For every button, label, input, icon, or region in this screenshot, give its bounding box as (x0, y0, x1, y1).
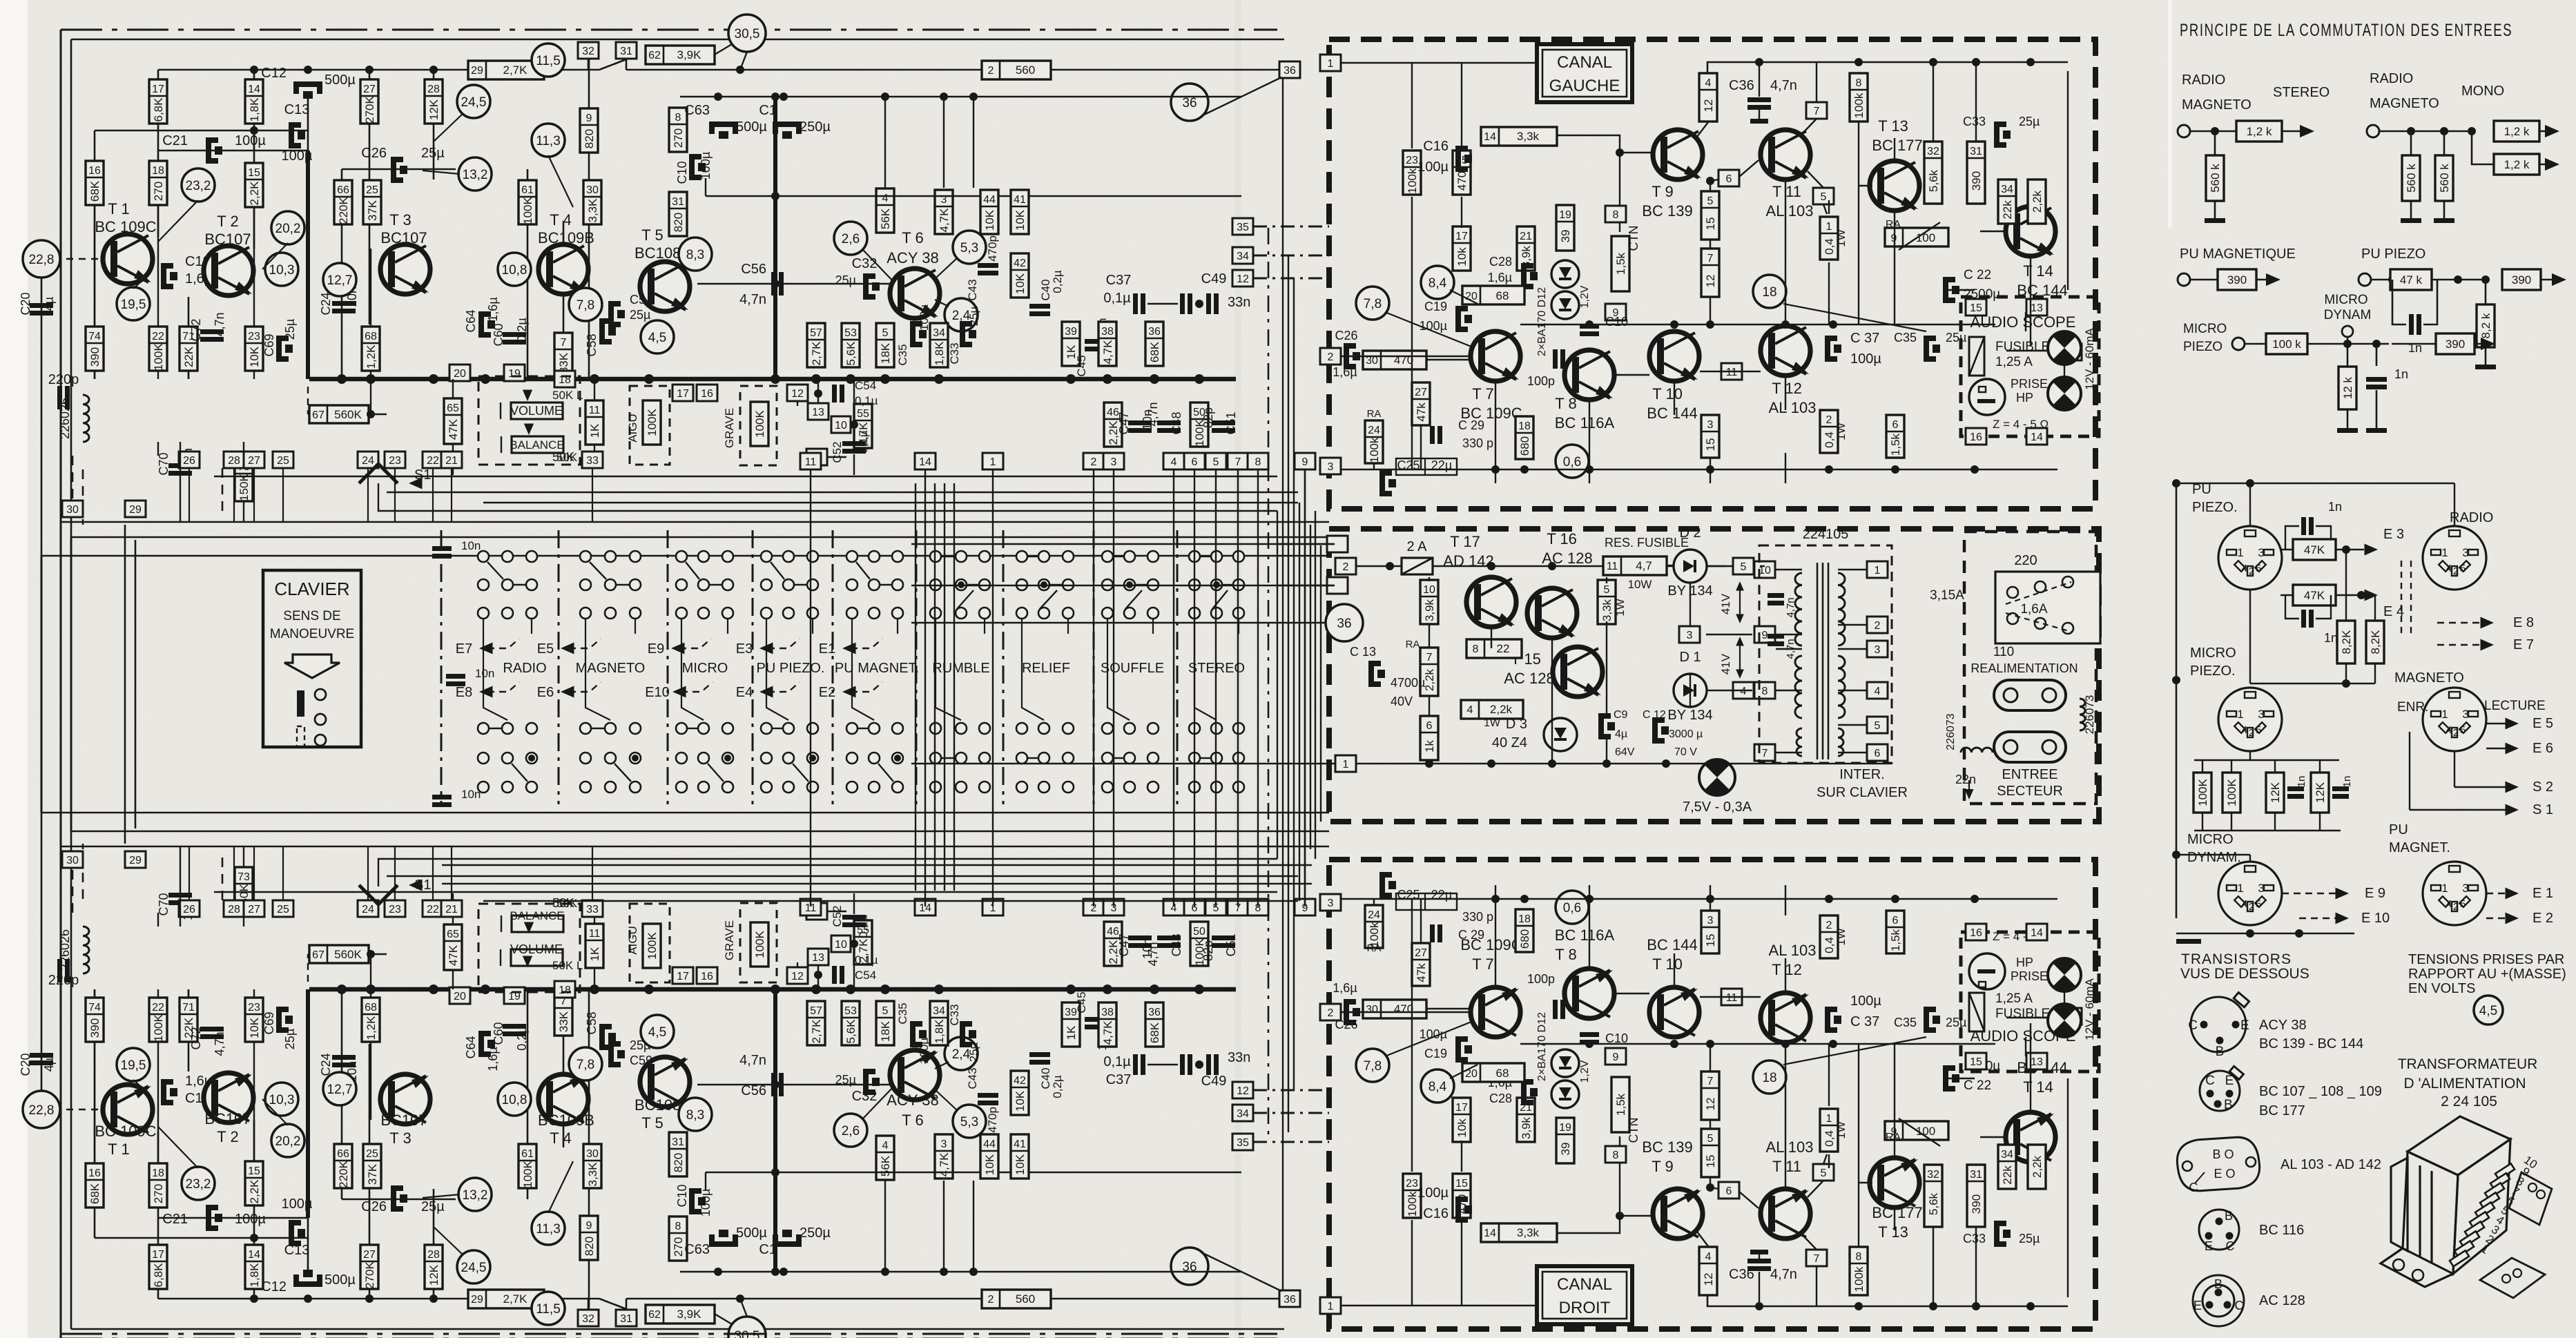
svg-text:28: 28 (228, 904, 240, 915)
svg-text:C9: C9 (1614, 709, 1628, 721)
svg-text:T 14: T 14 (2023, 262, 2053, 280)
svg-text:5,6K: 5,6K (844, 1019, 858, 1044)
svg-text:13: 13 (812, 407, 824, 418)
svg-text:5: 5 (1821, 1167, 1827, 1179)
svg-text:5: 5 (1821, 191, 1827, 203)
svg-text:C: C (2189, 1181, 2198, 1194)
svg-text:1,5k: 1,5k (1889, 433, 1902, 456)
svg-text:2: 2 (2249, 901, 2254, 913)
svg-text:100K: 100K (2196, 778, 2209, 806)
svg-text:C26: C26 (361, 1199, 387, 1214)
svg-text:19,5: 19,5 (121, 1058, 146, 1073)
svg-text:T 13: T 13 (1878, 117, 1908, 135)
svg-text:470: 470 (1394, 1002, 1413, 1016)
svg-text:110: 110 (1993, 645, 2014, 659)
svg-text:2,2k: 2,2k (2031, 1155, 2044, 1178)
svg-text:C19: C19 (1424, 1047, 1447, 1060)
svg-text:10K: 10K (1014, 273, 1027, 294)
svg-text:5: 5 (882, 327, 889, 339)
svg-text:C63: C63 (684, 103, 710, 118)
svg-text:2: 2 (1826, 920, 1832, 931)
svg-text:100µ: 100µ (918, 304, 931, 331)
svg-text:CLAVIER: CLAVIER (274, 579, 349, 599)
svg-text:T 7: T 7 (1472, 956, 1493, 973)
svg-text:30: 30 (586, 1148, 599, 1160)
svg-text:14: 14 (1484, 1228, 1496, 1239)
svg-text:0,2µ: 0,2µ (515, 1026, 529, 1050)
svg-text:0,1µ: 0,1µ (1103, 291, 1131, 306)
svg-text:4: 4 (2242, 724, 2247, 736)
svg-text:8: 8 (1856, 77, 1862, 89)
svg-text:12,7: 12,7 (327, 1083, 353, 1097)
svg-text:30: 30 (586, 184, 599, 196)
svg-text:270: 270 (672, 128, 685, 148)
svg-text:T 12: T 12 (1772, 380, 1802, 397)
svg-text:S 1: S 1 (2533, 802, 2553, 817)
svg-text:33K: 33K (557, 1011, 570, 1032)
svg-text:T 8: T 8 (1555, 395, 1576, 412)
svg-text:C21: C21 (162, 1212, 188, 1227)
svg-text:100µ: 100µ (235, 133, 266, 148)
svg-text:C43: C43 (966, 279, 979, 300)
svg-text:1n: 1n (2296, 776, 2307, 788)
svg-text:3,9k: 3,9k (1423, 599, 1436, 621)
svg-text:C51: C51 (1224, 933, 1238, 956)
svg-text:10K: 10K (983, 209, 996, 231)
svg-text:C54: C54 (855, 379, 876, 392)
svg-text:E8: E8 (456, 685, 472, 700)
svg-text:36: 36 (1284, 65, 1296, 77)
svg-text:18: 18 (152, 1167, 164, 1179)
svg-text:4: 4 (2446, 563, 2452, 574)
svg-text:53: 53 (844, 327, 857, 339)
svg-text:SUR CLAVIER: SUR CLAVIER (1817, 785, 1908, 800)
svg-text:E1: E1 (819, 641, 835, 657)
svg-text:31: 31 (1970, 146, 1982, 157)
svg-text:12: 12 (1704, 275, 1717, 288)
svg-text:82p: 82p (1201, 407, 1215, 428)
svg-text:19: 19 (1559, 1122, 1571, 1134)
svg-text:12K: 12K (2314, 782, 2327, 803)
svg-text:39: 39 (1559, 1143, 1572, 1156)
svg-text:E 5: E 5 (2533, 716, 2553, 731)
svg-text:8: 8 (1255, 456, 1261, 468)
svg-text:4,7n: 4,7n (1146, 402, 1160, 426)
svg-text:150K: 150K (238, 473, 251, 501)
svg-text:T 1: T 1 (108, 1141, 129, 1158)
svg-text:4: 4 (1875, 686, 1881, 697)
svg-text:25: 25 (366, 1148, 378, 1160)
svg-text:12K: 12K (427, 99, 440, 120)
svg-text:4: 4 (2446, 724, 2452, 736)
svg-text:560K: 560K (334, 948, 362, 961)
svg-text:1,2K: 1,2K (365, 1016, 378, 1040)
svg-text:0,1µ: 0,1µ (1103, 1054, 1131, 1069)
svg-text:50K L: 50K L (552, 959, 583, 972)
svg-text:E6: E6 (537, 685, 554, 700)
svg-text:2,7K: 2,7K (810, 341, 823, 366)
svg-text:9: 9 (1302, 456, 1308, 468)
svg-text:C36: C36 (1729, 78, 1754, 93)
svg-text:1: 1 (2441, 882, 2448, 895)
svg-text:C58: C58 (585, 333, 599, 356)
svg-text:16: 16 (1970, 927, 1982, 939)
svg-text:C16: C16 (1423, 1206, 1449, 1221)
svg-text:10,8: 10,8 (502, 1093, 527, 1107)
svg-text:BC 116A: BC 116A (1555, 414, 1615, 432)
svg-text:T 1: T 1 (108, 200, 129, 217)
svg-text:GRAVE: GRAVE (723, 920, 736, 960)
svg-text:PRINCIPE DE LA COMMUTATION: PRINCIPE DE LA COMMUTATION DES ENTREES (2180, 21, 2512, 40)
svg-text:29: 29 (471, 65, 483, 77)
svg-text:10K: 10K (983, 1154, 996, 1175)
svg-text:2: 2 (988, 65, 994, 77)
svg-text:18: 18 (1762, 1071, 1776, 1085)
svg-text:15: 15 (1704, 1155, 1717, 1168)
svg-text:390: 390 (88, 1018, 101, 1038)
svg-text:2: 2 (2453, 727, 2459, 739)
svg-text:70 V: 70 V (1674, 746, 1697, 758)
svg-text:C26: C26 (1335, 329, 1357, 342)
svg-text:5,3: 5,3 (960, 1115, 978, 1129)
svg-text:1,25 A: 1,25 A (1995, 355, 2033, 369)
svg-text:1: 1 (1826, 1113, 1832, 1125)
svg-text:65: 65 (447, 929, 459, 940)
svg-text:12,7: 12,7 (327, 273, 353, 288)
svg-text:C10: C10 (675, 161, 689, 184)
svg-text:C 29: C 29 (1458, 928, 1484, 942)
svg-text:11: 11 (805, 456, 817, 468)
svg-text:220K: 220K (337, 196, 350, 224)
svg-text:67: 67 (312, 409, 325, 421)
svg-text:5: 5 (2460, 563, 2466, 574)
svg-text:AL 103: AL 103 (1769, 399, 1817, 416)
svg-text:17: 17 (152, 1249, 164, 1261)
svg-text:53: 53 (844, 1005, 857, 1017)
svg-text:30: 30 (66, 504, 79, 516)
svg-text:12: 12 (1702, 1273, 1715, 1286)
svg-text:68K: 68K (88, 1183, 101, 1204)
svg-text:61: 61 (521, 1148, 534, 1160)
svg-text:39: 39 (1559, 230, 1572, 243)
svg-text:4: 4 (1171, 456, 1177, 468)
svg-text:42: 42 (1014, 1075, 1026, 1087)
svg-text:4: 4 (2446, 898, 2452, 910)
svg-text:12: 12 (1237, 273, 1249, 285)
svg-text:T 14: T 14 (2023, 1078, 2053, 1096)
svg-text:E 8: E 8 (2513, 615, 2534, 630)
svg-text:25µ: 25µ (630, 308, 650, 322)
svg-text:E: E (2240, 1018, 2249, 1033)
svg-text:LECTURE: LECTURE (2484, 699, 2546, 713)
svg-text:3: 3 (1687, 630, 1693, 641)
svg-text:C13: C13 (284, 1243, 310, 1258)
svg-text:E10: E10 (645, 685, 670, 700)
svg-text:32: 32 (1927, 146, 1939, 157)
svg-text:2,6: 2,6 (842, 1124, 860, 1138)
svg-text:15: 15 (1704, 217, 1717, 231)
svg-text:1W: 1W (1614, 599, 1627, 617)
svg-text:T 10: T 10 (1652, 956, 1683, 973)
svg-text:100µ: 100µ (1420, 1027, 1447, 1041)
svg-text:100k: 100k (1368, 437, 1381, 463)
svg-text:10k: 10k (1455, 247, 1469, 266)
svg-text:13: 13 (2031, 1056, 2043, 1068)
svg-text:28: 28 (427, 1249, 440, 1261)
svg-text:MICRO: MICRO (2190, 646, 2236, 661)
svg-text:3,3k: 3,3k (1517, 1226, 1540, 1239)
svg-text:100µ: 100µ (699, 152, 713, 180)
svg-text:0,6: 0,6 (1563, 901, 1581, 915)
svg-text:4: 4 (1705, 1251, 1712, 1263)
svg-text:E 1: E 1 (2533, 886, 2553, 901)
svg-text:13: 13 (812, 952, 824, 964)
svg-text:224105: 224105 (1803, 527, 1849, 542)
svg-text:68: 68 (365, 331, 377, 342)
svg-text:9: 9 (586, 1220, 592, 1232)
svg-text:B: B (2225, 1209, 2233, 1223)
svg-text:1W: 1W (1834, 229, 1848, 247)
svg-text:1: 1 (2441, 708, 2448, 721)
svg-text:31: 31 (620, 1313, 632, 1325)
svg-text:5: 5 (1875, 720, 1881, 732)
svg-text:3: 3 (1328, 461, 1334, 473)
svg-text:82p: 82p (1201, 940, 1215, 961)
svg-text:100p: 100p (1527, 972, 1555, 986)
svg-text:ACY 38: ACY 38 (887, 249, 938, 266)
svg-text:44: 44 (983, 194, 996, 206)
svg-text:10K: 10K (248, 346, 261, 367)
svg-text:E 9: E 9 (2365, 886, 2385, 901)
svg-text:22k: 22k (2001, 1165, 2014, 1185)
svg-text:4: 4 (2242, 563, 2247, 574)
svg-text:MAGNETO: MAGNETO (2394, 670, 2464, 686)
svg-text:E 7: E 7 (2513, 637, 2534, 652)
svg-text:10n: 10n (461, 539, 481, 552)
svg-text:C19: C19 (1424, 300, 1447, 313)
svg-text:27: 27 (1415, 947, 1427, 959)
svg-text:1,8K: 1,8K (248, 97, 261, 122)
svg-text:22: 22 (427, 904, 439, 915)
svg-text:31: 31 (620, 46, 632, 57)
svg-text:390: 390 (1970, 1194, 1983, 1214)
svg-text:25: 25 (277, 904, 289, 915)
svg-text:22,8: 22,8 (29, 253, 55, 267)
svg-text:470p: 470p (986, 235, 999, 262)
svg-text:50K: 50K (552, 450, 574, 464)
svg-text:4,7n: 4,7n (1146, 942, 1160, 966)
svg-text:16: 16 (701, 971, 713, 982)
svg-text:C33: C33 (948, 1004, 961, 1025)
svg-text:ACY 38: ACY 38 (2259, 1018, 2307, 1033)
svg-text:C37: C37 (1106, 273, 1132, 288)
svg-text:66: 66 (337, 1148, 349, 1160)
svg-text:62: 62 (648, 1309, 661, 1321)
svg-text:PIEZO.: PIEZO. (2190, 663, 2236, 679)
svg-text:E 2: E 2 (2533, 911, 2553, 926)
svg-text:820: 820 (583, 1237, 596, 1256)
svg-text:T 6: T 6 (902, 1112, 923, 1129)
svg-text:4: 4 (1741, 686, 1747, 697)
svg-text:13: 13 (2031, 302, 2043, 314)
svg-text:36: 36 (1148, 326, 1161, 338)
svg-text:0,1µ: 0,1µ (855, 953, 878, 967)
svg-text:12: 12 (1704, 1098, 1717, 1111)
svg-text:1,2K: 1,2K (365, 345, 378, 369)
svg-text:PIEZO.: PIEZO. (2192, 500, 2238, 515)
svg-text:T 12: T 12 (1772, 961, 1802, 978)
svg-text:4,7: 4,7 (1636, 559, 1652, 572)
svg-text:42: 42 (1014, 258, 1026, 269)
svg-text:22K: 22K (182, 346, 195, 367)
svg-text:25µ: 25µ (2019, 1232, 2040, 1245)
svg-text:7,8: 7,8 (577, 1058, 594, 1072)
svg-text:C12: C12 (261, 1279, 287, 1295)
svg-text:18: 18 (152, 165, 164, 177)
svg-text:TRANSFORMATEUR: TRANSFORMATEUR (2398, 1056, 2538, 1072)
svg-text:S 2: S 2 (2533, 779, 2553, 795)
svg-text:5,6K: 5,6K (844, 341, 858, 366)
svg-text:1K: 1K (588, 947, 601, 961)
svg-text:33n: 33n (1228, 1050, 1250, 1065)
svg-text:3: 3 (2462, 546, 2468, 559)
svg-text:10K: 10K (1014, 1154, 1027, 1175)
svg-text:4,7n: 4,7n (213, 312, 226, 336)
svg-text:B: B (2224, 1098, 2233, 1112)
svg-text:25µ: 25µ (283, 1029, 297, 1049)
svg-text:1: 1 (2237, 708, 2243, 721)
svg-text:STEREO: STEREO (2273, 85, 2330, 100)
svg-text:0,1µ: 0,1µ (857, 430, 870, 454)
svg-text:1,2V: 1,2V (1579, 285, 1591, 308)
svg-text:C48: C48 (1170, 411, 1183, 434)
svg-text:2: 2 (2453, 565, 2459, 577)
svg-text:C63: C63 (684, 1242, 710, 1257)
svg-text:7: 7 (1235, 456, 1241, 468)
svg-text:27: 27 (363, 84, 376, 95)
svg-text:T 2: T 2 (217, 213, 238, 230)
svg-text:0,2µ: 0,2µ (1051, 270, 1064, 293)
svg-text:36: 36 (1148, 1007, 1161, 1018)
svg-text:11: 11 (1607, 561, 1618, 572)
svg-text:18: 18 (1762, 285, 1776, 300)
svg-text:C 37: C 37 (1850, 331, 1879, 346)
svg-text:C: C (2205, 1074, 2215, 1088)
svg-text:BC 139: BC 139 (1642, 202, 1692, 220)
svg-text:T 5: T 5 (641, 226, 663, 244)
svg-text:25µ: 25µ (283, 319, 297, 340)
svg-text:1n: 1n (2328, 500, 2342, 514)
svg-text:C 22: C 22 (1964, 268, 1991, 282)
svg-text:11,5: 11,5 (536, 1302, 561, 1317)
svg-text:C35: C35 (1894, 1016, 1917, 1029)
svg-text:23,2: 23,2 (186, 179, 211, 193)
svg-text:1,6µ: 1,6µ (1333, 365, 1357, 379)
svg-text:25µ: 25µ (421, 1199, 445, 1214)
svg-text:C72: C72 (189, 318, 203, 341)
svg-text:C64: C64 (464, 1036, 478, 1058)
svg-text:C20: C20 (19, 1053, 32, 1076)
svg-text:BY 134: BY 134 (1667, 708, 1712, 723)
svg-text:560: 560 (1016, 1292, 1035, 1306)
svg-text:8,2K: 8,2K (2340, 630, 2353, 655)
svg-text:AC 128: AC 128 (1542, 550, 1592, 567)
svg-text:18: 18 (1518, 913, 1531, 925)
svg-text:25µ: 25µ (1946, 331, 1966, 345)
svg-text:4,7n: 4,7n (213, 1031, 226, 1056)
svg-text:20: 20 (454, 368, 466, 380)
svg-text:10K: 10K (1014, 209, 1027, 231)
svg-text:3,9K: 3,9K (677, 48, 702, 61)
svg-text:CTN: CTN (1627, 1118, 1640, 1143)
svg-text:47k: 47k (1415, 963, 1428, 982)
svg-text:100µ: 100µ (282, 148, 313, 164)
svg-text:T 13: T 13 (1878, 1223, 1908, 1241)
svg-text:C43: C43 (966, 1067, 979, 1089)
svg-text:DYNAM: DYNAM (2324, 308, 2372, 322)
svg-text:2,7K: 2,7K (503, 1292, 528, 1306)
svg-text:C35: C35 (1894, 331, 1917, 345)
svg-text:18: 18 (559, 985, 571, 996)
svg-text:11: 11 (589, 928, 601, 940)
svg-text:2: 2 (1343, 561, 1349, 573)
svg-text:AUDIO SCOPE: AUDIO SCOPE (1970, 313, 2076, 331)
svg-text:2,2k: 2,2k (1490, 703, 1513, 716)
svg-text:BC 144: BC 144 (1647, 405, 1697, 422)
svg-text:2 24 105: 2 24 105 (2441, 1094, 2497, 1109)
svg-text:25µ: 25µ (2019, 115, 2040, 128)
svg-text:3: 3 (1707, 915, 1714, 927)
svg-text:C45: C45 (1075, 991, 1088, 1013)
svg-text:390: 390 (2446, 338, 2465, 351)
svg-text:C49: C49 (1201, 1074, 1227, 1089)
svg-text:34: 34 (933, 327, 945, 339)
svg-text:18K: 18K (879, 1020, 892, 1042)
svg-text:3000 µ: 3000 µ (1669, 728, 1703, 740)
svg-text:RA: RA (1886, 219, 1901, 231)
svg-text:EN VOLTS: EN VOLTS (2408, 981, 2475, 996)
svg-text:1,6µ: 1,6µ (1333, 981, 1357, 995)
svg-text:47k: 47k (1415, 403, 1428, 422)
svg-text:5: 5 (2256, 898, 2261, 910)
svg-text:C26: C26 (361, 146, 387, 161)
svg-text:E9: E9 (648, 641, 664, 657)
svg-text:5: 5 (2256, 724, 2261, 736)
svg-text:330 p: 330 p (1462, 436, 1493, 450)
svg-text:270: 270 (152, 182, 165, 201)
svg-text:62: 62 (648, 50, 661, 61)
svg-text:BC107: BC107 (380, 229, 427, 246)
svg-text:820: 820 (583, 129, 596, 148)
svg-text:C32: C32 (852, 256, 878, 271)
svg-text:10: 10 (835, 420, 847, 432)
svg-text:5: 5 (882, 1005, 889, 1017)
svg-text:E O: E O (2214, 1167, 2235, 1181)
svg-text:41V: 41V (1719, 593, 1732, 614)
svg-text:23,2: 23,2 (186, 1177, 211, 1192)
svg-text:2×BA170 D12: 2×BA170 D12 (1536, 287, 1548, 356)
svg-text:820: 820 (672, 213, 685, 232)
svg-text:PRISE: PRISE (2011, 377, 2048, 391)
svg-text:ENTREE: ENTREE (2002, 767, 2057, 782)
svg-text:68K: 68K (1148, 1022, 1161, 1043)
svg-text:C 13: C 13 (1350, 645, 1376, 659)
svg-text:C10: C10 (1605, 315, 1628, 329)
svg-text:3: 3 (2462, 882, 2468, 895)
svg-text:41V: 41V (1719, 653, 1732, 675)
svg-text:7: 7 (1762, 748, 1768, 759)
svg-text:7: 7 (1814, 106, 1820, 117)
